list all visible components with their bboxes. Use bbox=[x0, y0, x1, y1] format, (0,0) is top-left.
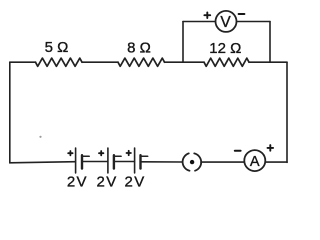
wire between R1 and R2 bbox=[82, 61, 118, 63]
voltmeter branch left vertical wire bbox=[182, 22, 184, 63]
battery B2 minus tick bbox=[115, 155, 121, 157]
battery B3 positive plate bbox=[134, 148, 136, 173]
resistor R1 5ohm bbox=[36, 58, 83, 66]
battery B1 positive plate bbox=[75, 148, 77, 173]
plug key K1 center dot bbox=[190, 160, 194, 164]
plug key K1 left arc bbox=[183, 153, 190, 170]
battery B3 minus tick bbox=[142, 155, 148, 157]
svg-text:A: A bbox=[250, 154, 260, 170]
svg-text:V: V bbox=[220, 14, 231, 31]
voltmeter minus sign bbox=[239, 13, 245, 15]
battery B2 plus sign bbox=[99, 151, 103, 155]
wire between B3 and plug key bbox=[142, 161, 182, 163]
ammeter U2 circle bbox=[244, 150, 265, 171]
resistor R3 12ohm bbox=[204, 58, 249, 66]
svg-text:2 V: 2 V bbox=[97, 174, 117, 191]
wire left side vertical bbox=[9, 62, 11, 163]
svg-text:5 Ω: 5 Ω bbox=[45, 39, 69, 56]
wire right side vertical bbox=[286, 62, 288, 162]
wire between B1 and B2 bbox=[83, 161, 108, 163]
voltmeter U1 circle bbox=[216, 11, 237, 32]
svg-text:2 V: 2 V bbox=[67, 174, 87, 191]
wire top-right segment bbox=[249, 61, 287, 63]
battery B1 negative plate bbox=[81, 155, 83, 168]
ammeter plus sign bbox=[268, 145, 274, 151]
voltmeter branch right vertical wire bbox=[269, 22, 271, 63]
wire top-left segment bbox=[10, 61, 36, 63]
battery B3 plus sign bbox=[127, 151, 131, 155]
scan speck artifact bbox=[39, 136, 41, 138]
voltmeter plus sign bbox=[204, 12, 210, 18]
battery B3 negative plate bbox=[139, 155, 141, 168]
battery B2 positive plate bbox=[107, 148, 109, 173]
voltmeter branch top-right wire bbox=[237, 21, 270, 23]
wire between plug key and ammeter bbox=[201, 161, 244, 163]
svg-text:8 Ω: 8 Ω bbox=[127, 40, 151, 57]
wire between ammeter and right corner bbox=[266, 161, 287, 163]
battery B1 minus tick bbox=[83, 155, 89, 157]
wire between B2 and B3 bbox=[115, 161, 134, 163]
svg-text:2 V: 2 V bbox=[125, 174, 145, 191]
wire bottom-left segment bbox=[10, 162, 76, 163]
voltmeter branch top-left wire bbox=[183, 21, 215, 23]
resistor R2 8ohm bbox=[118, 58, 165, 66]
ammeter minus sign bbox=[235, 150, 241, 152]
svg-text:12 Ω: 12 Ω bbox=[209, 40, 241, 57]
battery B2 negative plate bbox=[113, 155, 115, 168]
battery B1 plus sign bbox=[68, 151, 72, 155]
wire bottom-right at corner bbox=[286, 161, 288, 163]
plug key K1 right arc bbox=[194, 153, 201, 170]
wire between R2 and R3 bbox=[165, 61, 205, 63]
